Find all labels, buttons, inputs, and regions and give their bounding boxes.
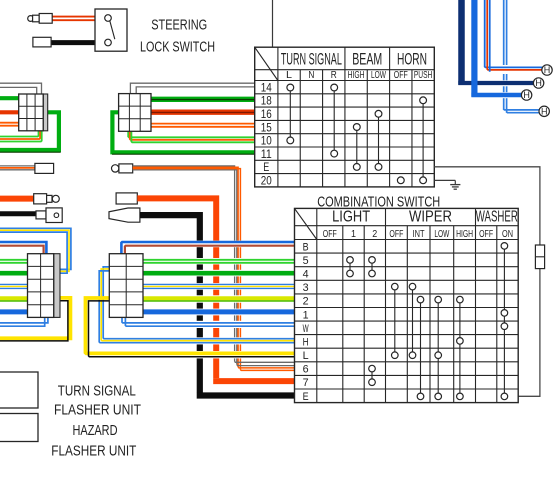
switch table 1 (TURN SIGNAL / BEAM / HORN) grid [255, 47, 435, 187]
bullet terminal female (white/orange) [112, 164, 133, 173]
svg-text:TURN SIGNAL: TURN SIGNAL [58, 383, 136, 399]
svg-text:H: H [541, 107, 548, 117]
svg-text:TURN SIGNAL: TURN SIGNAL [281, 50, 342, 68]
table 1 contact OFF (20) [397, 177, 404, 184]
wire blue/white pair into A2 bottom [0, 317, 48, 326]
svg-text:7: 7 [303, 377, 309, 389]
svg-text:6: 6 [303, 364, 309, 376]
svg-text:5: 5 [303, 255, 309, 267]
wire red into connector A1 [0, 110, 19, 114]
svg-text:PUSH: PUSH [414, 69, 433, 81]
wire table1 row 20 to ground [434, 179, 455, 181]
svg-text:N: N [308, 69, 314, 81]
svg-text:1: 1 [351, 228, 356, 240]
table 2 header texts [323, 209, 518, 241]
table 2 contact chain LIGHT2 (5-4) [369, 257, 376, 277]
label STEERING LOCK SWITCH [140, 18, 215, 56]
svg-text:ON: ON [502, 228, 513, 240]
svg-text:OFF: OFF [394, 69, 408, 81]
svg-text:OFF: OFF [479, 228, 493, 240]
wire orange pair into table2 row 6 [238, 367, 294, 370]
svg-text:L: L [286, 69, 292, 81]
wire green/orange/green loop under connector A1 [0, 131, 42, 142]
terminal female (black wire) [109, 208, 140, 222]
bullet connector male (red wire) [28, 14, 53, 24]
table 2 contact chain LIGHT2 (6-7) [369, 365, 376, 385]
wire table1 row E to right-side connector [434, 167, 540, 396]
hazard flasher unit box [0, 414, 38, 442]
wire blue to connector H3 [471, 0, 477, 97]
wire light-green pair from B2 to table2 row 5 [143, 260, 295, 263]
wire white pair from connector B1 top to table row 14 [130, 83, 255, 93]
wire white pair into table2 row 6 [235, 362, 295, 366]
wire yellow/black loop from B2 left to table2 row L [86, 298, 295, 357]
svg-text:11: 11 [261, 149, 272, 161]
svg-text:H: H [535, 78, 542, 88]
wire blue/white horizontal to connector H4 [504, 109, 540, 113]
table 1 contact chain L (14-10) [287, 84, 294, 144]
terminal male (orange wire) [34, 194, 60, 204]
svg-text:20: 20 [261, 176, 272, 188]
svg-text:HIGH: HIGH [456, 228, 473, 240]
wire blue from B2 to table2 row 1 [143, 309, 295, 314]
svg-text:HAZARD: HAZARD [73, 423, 118, 439]
wire blue/yellow stripe into A2 row 3 [0, 284, 28, 288]
svg-text:14: 14 [261, 82, 273, 94]
svg-text:1: 1 [303, 309, 309, 321]
wire blue/white vertical to connector H4 [504, 0, 507, 113]
wire green from B2 to table2 row 4 [143, 271, 295, 276]
svg-text:FLASHER UNIT: FLASHER UNIT [54, 402, 141, 418]
svg-text:3: 3 [303, 282, 309, 294]
connector A2 (2x5 with lock strip) [28, 254, 61, 318]
wire light-green pair into A2 row 1 [0, 260, 28, 263]
svg-text:15: 15 [261, 122, 272, 134]
table 2 contact chain INT (2-E) [417, 296, 424, 399]
table 2 contact chain WASHER ON (B-1-W-E) [501, 243, 508, 400]
table 2 contact chain INT (3-L) [409, 283, 416, 358]
wire orange thick into table2 row 7 [213, 378, 294, 381]
wire yellow/green into A2 row 4 [0, 298, 28, 301]
svg-text:W: W [303, 323, 309, 335]
svg-text:OFF: OFF [323, 228, 337, 240]
label TURN SIGNAL FLASHER UNIT [54, 383, 141, 418]
terminal female (orange wire) [116, 193, 137, 204]
svg-text:H: H [303, 336, 309, 348]
svg-text:LOW: LOW [434, 228, 449, 240]
svg-text:H: H [523, 90, 530, 100]
table 2 contact chain LIGHT1 (5-4) [347, 257, 354, 277]
wire white pair into connector A1 top [0, 83, 42, 94]
wire blue/red pair from B2 top to table2 row B [121, 242, 294, 254]
svg-text:10: 10 [261, 136, 272, 148]
svg-text:FLASHER UNIT: FLASHER UNIT [51, 444, 136, 460]
svg-text:16: 16 [261, 109, 272, 121]
svg-text:R: R [331, 69, 337, 81]
wire black thick into table2 row E [197, 393, 295, 396]
wire blue/red to connector H1 [485, 0, 543, 72]
wire orange pair into connector A1 [0, 123, 19, 126]
connector terminal (black wire) [33, 37, 51, 47]
wire blue/yellow into A2 right (from left edge) [0, 228, 71, 273]
table 1 contact chain PUSH (18-20) [420, 97, 427, 184]
svg-text:HIGH: HIGH [348, 69, 365, 81]
wire red/black from B1 to table row 16 [151, 109, 255, 115]
turn signal flasher unit box [0, 372, 38, 408]
crossing gaps on vertical trunks [196, 241, 242, 359]
svg-text:B: B [303, 241, 309, 253]
wire green into connector A1 [0, 96, 19, 100]
wire orange trunk vertical (to table2 row 7) [137, 198, 216, 378]
wire white/orange to bullet connector (male) [0, 166, 35, 170]
connector B2 (2x5) [109, 254, 143, 318]
table 2 row labels [303, 241, 309, 402]
combination switch table 2 grid [295, 208, 519, 402]
wire blue into A2 row 5 [0, 309, 28, 314]
wire green/orange/green from connector B1 bottom to table row 10 [128, 131, 255, 142]
svg-text:STEERING: STEERING [151, 18, 207, 34]
svg-text:INT: INT [413, 228, 425, 240]
wire blue/white pair from B2 bottom to table2 row W [122, 317, 295, 326]
table 1 contact chain HIGH (15-E) [353, 124, 360, 171]
svg-text:2: 2 [372, 228, 377, 240]
wire orange pair trunk vertical [133, 167, 241, 369]
label HAZARD FLASHER UNIT [51, 423, 136, 460]
connector A1 (3x3 with lock strip) [19, 94, 48, 131]
wire red pair to steering lock switch [52, 17, 95, 21]
wire green loop right (B1 left side to table row 11) [112, 112, 255, 154]
wire green into A2 row 2 [0, 271, 28, 276]
svg-text:18: 18 [261, 96, 272, 108]
svg-text:WASHER: WASHER [476, 209, 518, 226]
in-line connector on E wire (right edge) [535, 245, 544, 269]
connector B1 (3x3) [119, 94, 151, 132]
connector H2 [533, 78, 543, 88]
crossing gaps on blue/white vertical [502, 65, 507, 98]
svg-text:H: H [544, 65, 551, 75]
table 1 row labels [261, 82, 273, 187]
ground symbol [450, 180, 460, 189]
wire orange thick to terminal (male side) [0, 196, 34, 202]
wire yellow/black loop into A2 right side [0, 298, 70, 341]
wire white pair trunk vertical [133, 166, 237, 365]
svg-text:4: 4 [303, 269, 309, 281]
wire blue/yellow loop from B2 left to table2 row H [99, 267, 294, 343]
wire blue/yellow stripe from B2 to table2 row 3 [143, 284, 295, 288]
table 1 header texts [281, 50, 432, 81]
terminal male (black wire) [36, 208, 62, 223]
table 1 contact chain LOW (16-E) [375, 110, 382, 170]
wire green loop left (to A1 right side) [0, 112, 61, 152]
svg-text:L: L [303, 350, 309, 362]
svg-text:E: E [263, 162, 269, 174]
table 2 contact chain LOW (2-L-E) [435, 296, 442, 399]
table 1 contact chain R (14-11) [331, 84, 338, 157]
steering lock switch S1 [95, 9, 127, 51]
wire black thick to terminal (male side) [0, 211, 36, 216]
wire black trunk vertical (to table2 row E) [140, 215, 200, 392]
wire blue/red pair into A2 top (from left edge) [0, 242, 46, 254]
svg-text:OFF: OFF [389, 228, 403, 240]
bullet terminal male (white/orange) [35, 163, 54, 173]
svg-text:WIPER: WIPER [409, 209, 452, 226]
wire green/black from B1 to table row 18 [151, 97, 255, 103]
wire black to steering lock switch [51, 40, 95, 45]
svg-text:E: E [303, 391, 309, 403]
wire orange pair from B1 to table row 15 [151, 124, 255, 127]
svg-text:2: 2 [303, 296, 309, 308]
svg-text:BEAM: BEAM [352, 50, 382, 68]
wire stub from top edge to table 1 [272, 0, 274, 47]
svg-text:HORN: HORN [397, 50, 427, 68]
svg-text:LIGHT: LIGHT [332, 209, 370, 226]
wire blue/black to connector H2 [458, 0, 465, 85]
table 2 contact chain HIGH (2-H-E) [457, 296, 464, 399]
svg-text:LOW: LOW [371, 69, 386, 81]
connector H3 [521, 90, 531, 100]
svg-text:LOCK SWITCH: LOCK SWITCH [140, 40, 215, 56]
connector H1 [542, 65, 552, 75]
table 2 contact chain WIPER OFF (3-L) [392, 283, 399, 358]
wire yellow/green from B2 to table2 row 2 [143, 298, 295, 301]
connector H4 [539, 106, 549, 116]
